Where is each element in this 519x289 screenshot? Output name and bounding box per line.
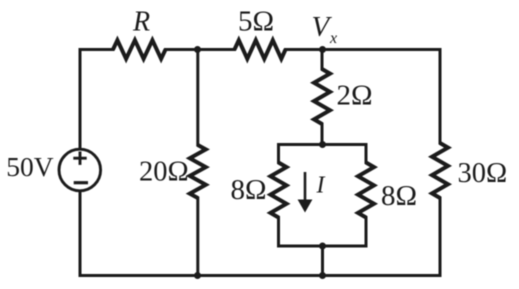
svg-text:8Ω: 8Ω bbox=[381, 180, 417, 212]
wire parallel box right 8-ohm to bottom rail bbox=[365, 218, 368, 247]
wire bottom rail bbox=[80, 274, 440, 277]
node parallel box top dot bbox=[319, 141, 326, 148]
wire R to node A bbox=[166, 48, 198, 51]
resistor 5-ohm bbox=[235, 40, 286, 59]
wire parallel box top rail bbox=[279, 143, 367, 146]
resistor 2-ohm bbox=[314, 69, 330, 124]
resistor 8-ohm left bbox=[271, 163, 287, 218]
wire Vx down to 2-ohm bbox=[321, 50, 324, 70]
wire node A down to 20-ohm bbox=[196, 50, 199, 146]
wire 5-ohm to node Vx bbox=[286, 48, 323, 51]
node bottom rail left dot bbox=[194, 272, 201, 279]
wire 20-ohm to bottom rail bbox=[196, 198, 199, 276]
svg-text:I: I bbox=[316, 173, 326, 199]
svg-text:20Ω: 20Ω bbox=[139, 157, 189, 188]
node Vx junction dot bbox=[319, 46, 326, 53]
svg-text:8Ω: 8Ω bbox=[231, 174, 267, 206]
node bottom rail right dot bbox=[319, 272, 326, 279]
wire 2-ohm to parallel box top bbox=[321, 124, 324, 145]
wire box bottom node to bottom rail bbox=[321, 246, 324, 276]
svg-text:5Ω: 5Ω bbox=[238, 6, 274, 38]
wire left side top (corner to source) bbox=[79, 50, 82, 150]
wire node A to 5-ohm bbox=[198, 48, 235, 51]
svg-text:50V: 50V bbox=[6, 151, 54, 182]
wire 30-ohm bottom to corner bbox=[439, 198, 442, 276]
svg-text:R: R bbox=[132, 7, 150, 38]
voltage source minus sign bbox=[74, 181, 88, 184]
wire parallel box right drop bbox=[365, 145, 368, 163]
current arrow I bbox=[298, 172, 313, 213]
voltage source V1 circle bbox=[59, 149, 101, 191]
resistor 30-ohm bbox=[432, 143, 448, 198]
resistor 8-ohm right bbox=[358, 163, 374, 218]
wire parallel box left drop bbox=[277, 145, 280, 163]
svg-text:30Ω: 30Ω bbox=[458, 158, 508, 189]
wire parallel box left 8-ohm to bottom rail bbox=[277, 218, 280, 247]
resistor R bbox=[113, 40, 166, 59]
wire top-left (left corner to R) bbox=[80, 48, 113, 51]
wire Vx to top-right corner down to 30-ohm bbox=[323, 50, 441, 144]
wire parallel box bottom rail bbox=[279, 245, 367, 248]
svg-text:2Ω: 2Ω bbox=[337, 80, 373, 112]
voltage source plus sign bbox=[73, 152, 86, 165]
node A junction dot bbox=[194, 46, 201, 53]
resistor 20-ohm bbox=[190, 145, 206, 198]
wire source bottom to bottom-left corner bbox=[79, 191, 82, 276]
svg-text:x: x bbox=[329, 30, 337, 47]
node parallel box bottom dot bbox=[319, 243, 326, 250]
